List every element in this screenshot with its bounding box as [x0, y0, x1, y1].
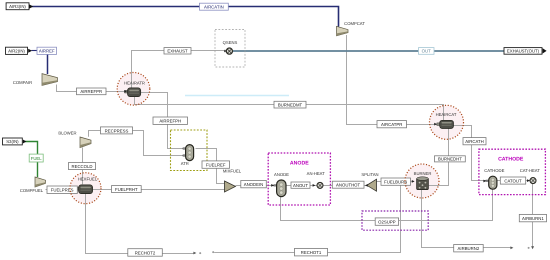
- stream label RECHOT1: [295, 248, 328, 256]
- node dot RECHOT1 terminator: [212, 251, 214, 253]
- node EXHAUST(OUT): [504, 48, 547, 55]
- reactor ATR: [181, 145, 194, 166]
- compressor COMPFUEL: [20, 177, 46, 193]
- svg-text:AIRCATPR: AIRCATPR: [381, 122, 402, 127]
- wire FUELBURN: [377, 181, 415, 183]
- svg-text:COMPAIR: COMPAIR: [13, 80, 32, 85]
- highlight circle ring HEAIRATR: [117, 73, 150, 106]
- svg-text:AIRBURN1: AIRBURN1: [522, 216, 544, 221]
- highlight circle ring HEXFUEL: [70, 173, 101, 204]
- svg-text:AIRCATH: AIRCATH: [465, 139, 484, 144]
- stream label AIRREFPR: [77, 88, 107, 95]
- heat stream (pale cyan): [185, 95, 289, 97]
- svg-text:FUELBURN: FUELBURN: [384, 180, 407, 185]
- node AIR2(IN): [6, 47, 33, 54]
- heat exchanger HEAIRCAT: [436, 112, 457, 128]
- wire AIR2(IN) to AIRREF (navy): [32, 50, 38, 52]
- svg-text:S3(IN): S3(IN): [6, 139, 19, 144]
- svg-text:ATR: ATR: [181, 161, 189, 166]
- wire AIRREFPH: [141, 93, 186, 149]
- svg-text:AIRBURN2: AIRBURN2: [458, 246, 480, 251]
- stream label AIRCATH: [463, 138, 486, 145]
- wire FUELREF: [196, 149, 225, 184]
- wire AIRCATPR: [347, 35, 439, 125]
- wire RECPRESS: [89, 131, 186, 156]
- arrowhead into ANODE icon: [271, 184, 274, 187]
- wire OUT (steel blue): [233, 50, 504, 52]
- arrowhead into SPLITAN: [365, 184, 368, 187]
- svg-text:QSENS: QSENS: [223, 40, 238, 45]
- node S3(IN): [3, 138, 27, 145]
- svg-text:AIR2(IN): AIR2(IN): [8, 49, 25, 54]
- heat exchanger HEAIRATR: [124, 80, 145, 96]
- stream label AIRREF: [37, 47, 57, 54]
- highlight circle fill HEAIRATR: [117, 73, 150, 106]
- burner BURNER: [414, 171, 432, 190]
- heat exchanger CAT-HEAT: [520, 168, 541, 184]
- svg-text:BLOWER: BLOWER: [58, 131, 76, 136]
- svg-text:FUELREF: FUELREF: [206, 163, 226, 168]
- reactor CATHODE icon: [484, 168, 504, 189]
- arrowhead into CATHODE icon: [483, 180, 486, 183]
- svg-text:AIRREFPH: AIRREFPH: [159, 119, 181, 124]
- stream label FUELPRHT: [112, 186, 142, 193]
- arrowhead RECHOT2 end: [193, 252, 196, 255]
- svg-text:AIR3(IN): AIR3(IN): [9, 4, 26, 9]
- highlight circle fill HEAIRCAT: [430, 105, 464, 139]
- svg-text:CATHODE: CATHODE: [498, 157, 524, 163]
- svg-text:O2SUPP: O2SUPP: [378, 220, 396, 225]
- arrowhead ANOUT to AN-HEAT: [313, 184, 316, 187]
- stream label RECCOLD: [69, 163, 96, 170]
- stream label BURNEDMT: [274, 101, 306, 108]
- svg-text:COMPFUEL: COMPFUEL: [20, 188, 44, 193]
- svg-text:BURNER: BURNER: [414, 171, 432, 176]
- stream label O2SUPP: [375, 218, 398, 225]
- heat exchanger AN-HEAT: [307, 171, 326, 188]
- svg-text:ANODEIN: ANODEIN: [244, 182, 264, 187]
- wire ANOUTHOT: [323, 185, 366, 187]
- svg-text:ANOUT: ANOUT: [293, 183, 308, 188]
- node dot RECHOT2 terminator: [199, 252, 201, 254]
- wire RECCOLD: [82, 148, 84, 185]
- svg-text:HEAIRATR: HEAIRATR: [124, 80, 145, 85]
- svg-text:AIRREFPR: AIRREFPR: [80, 89, 102, 94]
- svg-text:RECHOT2: RECHOT2: [135, 250, 156, 255]
- wire FUELPREX: [46, 189, 79, 191]
- svg-text:FUEL: FUEL: [31, 156, 43, 161]
- node AIR3(IN): [6, 3, 33, 10]
- highlight circle fill BURNER: [405, 164, 439, 198]
- heat exchanger HEXFUEL: [76, 177, 98, 194]
- svg-text:BURNEDHT: BURNEDHT: [438, 157, 462, 162]
- stream label AIRBURN2: [454, 245, 484, 252]
- svg-text:COMPCAT: COMPCAT: [344, 21, 365, 26]
- svg-text:BURNEDMT: BURNEDMT: [278, 103, 303, 108]
- svg-text:CATOUT: CATOUT: [504, 179, 522, 184]
- compressor COMPCAT: [337, 21, 366, 36]
- svg-text:RECCOLD: RECCOLD: [71, 164, 92, 169]
- stream label ANOUT: [291, 182, 310, 188]
- node dot AIRBURN2 terminator: [528, 247, 530, 249]
- stream label AIRCATPR: [377, 121, 407, 128]
- stream label BURNEDHT: [435, 156, 466, 162]
- highlight circle ring HEAIRCAT: [430, 105, 464, 139]
- stream label ANODEIN: [241, 181, 266, 188]
- wire RECHOT1: [214, 186, 400, 253]
- stream label FUEL: [29, 154, 43, 162]
- mixer MIXFUEL: [223, 168, 242, 192]
- wire AIRREFPR: [57, 85, 126, 92]
- svg-text:HEXFUEL: HEXFUEL: [78, 177, 98, 182]
- arrowhead AIRBURN1 end: [531, 246, 534, 249]
- wire ANOUT: [286, 185, 317, 187]
- arrowhead CATOUT to CAT-HEAT: [527, 179, 530, 182]
- stream label EXHAUST: [164, 48, 191, 54]
- block ANODE hierarchy box: [268, 153, 330, 205]
- wire AIRCATIN (navy): [31, 7, 339, 27]
- block O2SUPP hierarchy box: [362, 211, 428, 230]
- wire AIRBURN2: [422, 190, 512, 248]
- sensor QSENS: [223, 40, 238, 54]
- arrowhead AIRBURN2 end: [510, 246, 513, 249]
- wire O2SUPP (cathode to anode): [281, 189, 493, 220]
- svg-text:AN-HEAT: AN-HEAT: [307, 171, 326, 176]
- stream label OUT: [419, 48, 435, 55]
- stream label AIRBURN1: [519, 214, 546, 221]
- stream label RECPRESS: [101, 127, 133, 134]
- stream label ANOUTHOT: [332, 181, 364, 188]
- wire AIRCATH: [454, 126, 487, 181]
- compressor COMPAIR: [13, 74, 58, 86]
- wire RECHOT2: [86, 194, 195, 254]
- highlight circle ring BURNER: [405, 164, 439, 198]
- svg-text:FUELPRHT: FUELPRHT: [115, 187, 138, 192]
- stream label FUELBURN: [381, 178, 411, 185]
- svg-text:EXHAUST: EXHAUST: [167, 49, 188, 54]
- svg-text:RECPRESS: RECPRESS: [105, 128, 129, 133]
- svg-text:ANOUTHOT: ANOUTHOT: [336, 183, 360, 188]
- highlight circle fill HEXFUEL: [70, 173, 101, 204]
- wire AIRBURN1: [532, 184, 534, 248]
- stream label AIRCATIN: [200, 3, 229, 10]
- wire AIRREF (navy): [47, 55, 49, 75]
- svg-text:OUT: OUT: [422, 49, 431, 54]
- arrowhead into HEAIRATR: [124, 90, 127, 93]
- block QSENS dashed box: [215, 30, 245, 68]
- svg-text:EXHAUST(OUT): EXHAUST(OUT): [507, 49, 540, 54]
- arrowhead into HEAIRCAT: [434, 123, 437, 126]
- reactor ANODE icon: [274, 172, 289, 197]
- wire FUEL (green): [24, 142, 38, 178]
- svg-text:MIXFUEL: MIXFUEL: [223, 168, 242, 173]
- stream label FUELREF: [202, 161, 230, 168]
- stream label RECHOT2: [128, 249, 163, 257]
- svg-text:RECHOT1: RECHOT1: [301, 250, 322, 255]
- wire FUELPRHT: [93, 189, 225, 191]
- wire BURNEDHT: [429, 129, 449, 186]
- svg-text:AIRREF: AIRREF: [39, 49, 55, 54]
- svg-text:CAT-HEAT: CAT-HEAT: [520, 168, 541, 173]
- svg-text:SPLITAN: SPLITAN: [361, 172, 378, 177]
- svg-text:AIRCATIN: AIRCATIN: [204, 4, 224, 9]
- splitter SPLITAN: [361, 172, 378, 191]
- wire ANODEIN: [236, 185, 277, 187]
- stream label FUELPREX: [47, 186, 77, 194]
- wire CATOUT: [497, 180, 530, 182]
- block CATHODE hierarchy box: [479, 149, 546, 194]
- svg-text:ANODE: ANODE: [290, 160, 309, 166]
- wire BURNEDMT: [135, 97, 444, 122]
- wire EXHAUST: [132, 51, 226, 89]
- stream label CATOUT: [500, 177, 525, 184]
- blower BLOWER: [58, 131, 91, 148]
- svg-text:ANODE: ANODE: [274, 172, 289, 177]
- block ATR dashed box: [171, 130, 208, 171]
- arrowhead into BURNER: [412, 180, 415, 183]
- svg-text:HEAIRCAT: HEAIRCAT: [436, 112, 457, 117]
- svg-text:CATHODE: CATHODE: [484, 168, 504, 173]
- stream label AIRREFPH: [153, 117, 188, 124]
